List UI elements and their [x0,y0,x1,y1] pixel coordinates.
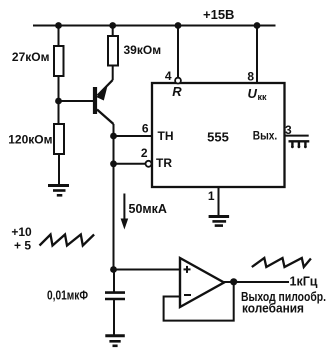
pulse train symbol pin3 [289,141,310,148]
wire +15V power rail [33,25,276,27]
ground under R3 [48,186,69,196]
wire to op-amp plus input [114,269,181,271]
svg-text:U: U [248,86,258,101]
node output [230,278,237,285]
transistor Q1 (PNP) [59,80,114,124]
node base junction [55,98,62,105]
svg-text:+15В: +15В [203,7,234,22]
node rail-R1 [55,22,62,29]
capacitor C1 0,01мкФ [105,270,125,336]
node rail-R2 [109,22,116,29]
svg-text:TH: TH [158,129,174,143]
svg-text:3: 3 [285,123,292,137]
wire TR pin2 [114,163,146,165]
svg-text:120кОм: 120кОм [8,133,52,147]
svg-text:4: 4 [165,69,172,83]
wire pin4 [177,26,179,78]
current arrow 50мкА [121,194,129,230]
node rail-pin4 [175,22,182,29]
sawtooth waveform left [40,235,95,246]
svg-text:0,01мкФ: 0,01мкФ [47,289,88,303]
svg-text:1кГц: 1кГц [290,275,318,289]
wire feedback loop [164,282,234,321]
resistor R2 39кОм [108,26,118,81]
svg-text:27кОм: 27кОм [12,50,50,64]
IC U1 555 box [152,83,285,187]
wire pin3 [285,135,309,137]
resistor R1 27кОм [54,26,64,102]
svg-text:8: 8 [247,70,254,84]
svg-text:+ 5: + 5 [14,238,31,252]
op-amp U2 buffer [180,258,224,307]
bubble TR inversion [146,161,152,167]
resistor R3 120кОм [54,101,64,185]
svg-text:+10: +10 [11,225,32,239]
bubble pin4 inversion [175,78,181,84]
ground pin1 [209,217,230,226]
svg-text:1: 1 [208,189,215,203]
sawtooth waveform right [252,258,311,267]
wire TH pin6 [114,135,153,137]
node TR junction [110,160,117,167]
wire pin1 stub [218,187,220,216]
node TH junction [110,133,117,140]
wire collector vertical [113,124,115,270]
wire output [224,281,289,283]
node rail-pin8 [254,22,261,29]
node capacitor junction [110,266,117,273]
svg-text:6: 6 [142,122,149,136]
svg-text:кк: кк [258,92,268,102]
svg-text:R: R [172,84,182,99]
wire pin8 [256,26,258,84]
ground under C1 [105,336,125,346]
svg-text:Вых.: Вых. [253,129,278,143]
svg-text:TR: TR [156,156,172,170]
svg-text:2: 2 [141,146,148,160]
svg-text:555: 555 [207,130,229,145]
svg-text:39кОм: 39кОм [124,43,162,57]
svg-text:колебания: колебания [242,301,304,316]
svg-text:50мкА: 50мкА [129,202,167,216]
